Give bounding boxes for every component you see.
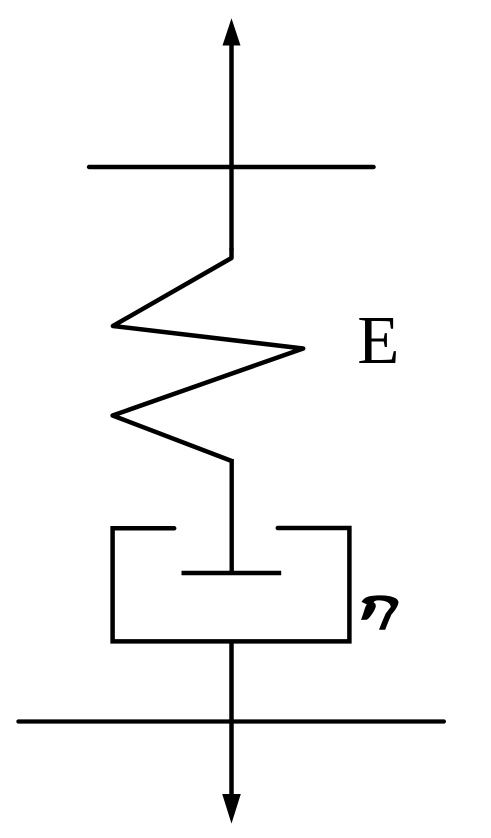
wire (top plate to spring) [229, 167, 233, 250]
bottom force arrow head (downward) [222, 794, 241, 824]
wire (dashpot to bottom plate and arrow shaft) [229, 641, 234, 796]
label eta (viscosity) [361, 595, 399, 629]
wire (spring to dashpot piston rod) [229, 459, 233, 573]
bottom plate (lower crossbar) [18, 719, 444, 723]
dashpot cylinder (cup) [113, 528, 350, 641]
dashpot piston plate [182, 571, 282, 576]
top plate (upper crossbar) [89, 165, 374, 169]
spring E (zigzag) [113, 248, 304, 461]
top force arrow (upward) [223, 18, 241, 168]
svg-text:E: E [357, 302, 399, 378]
label E (spring modulus) [357, 302, 399, 378]
